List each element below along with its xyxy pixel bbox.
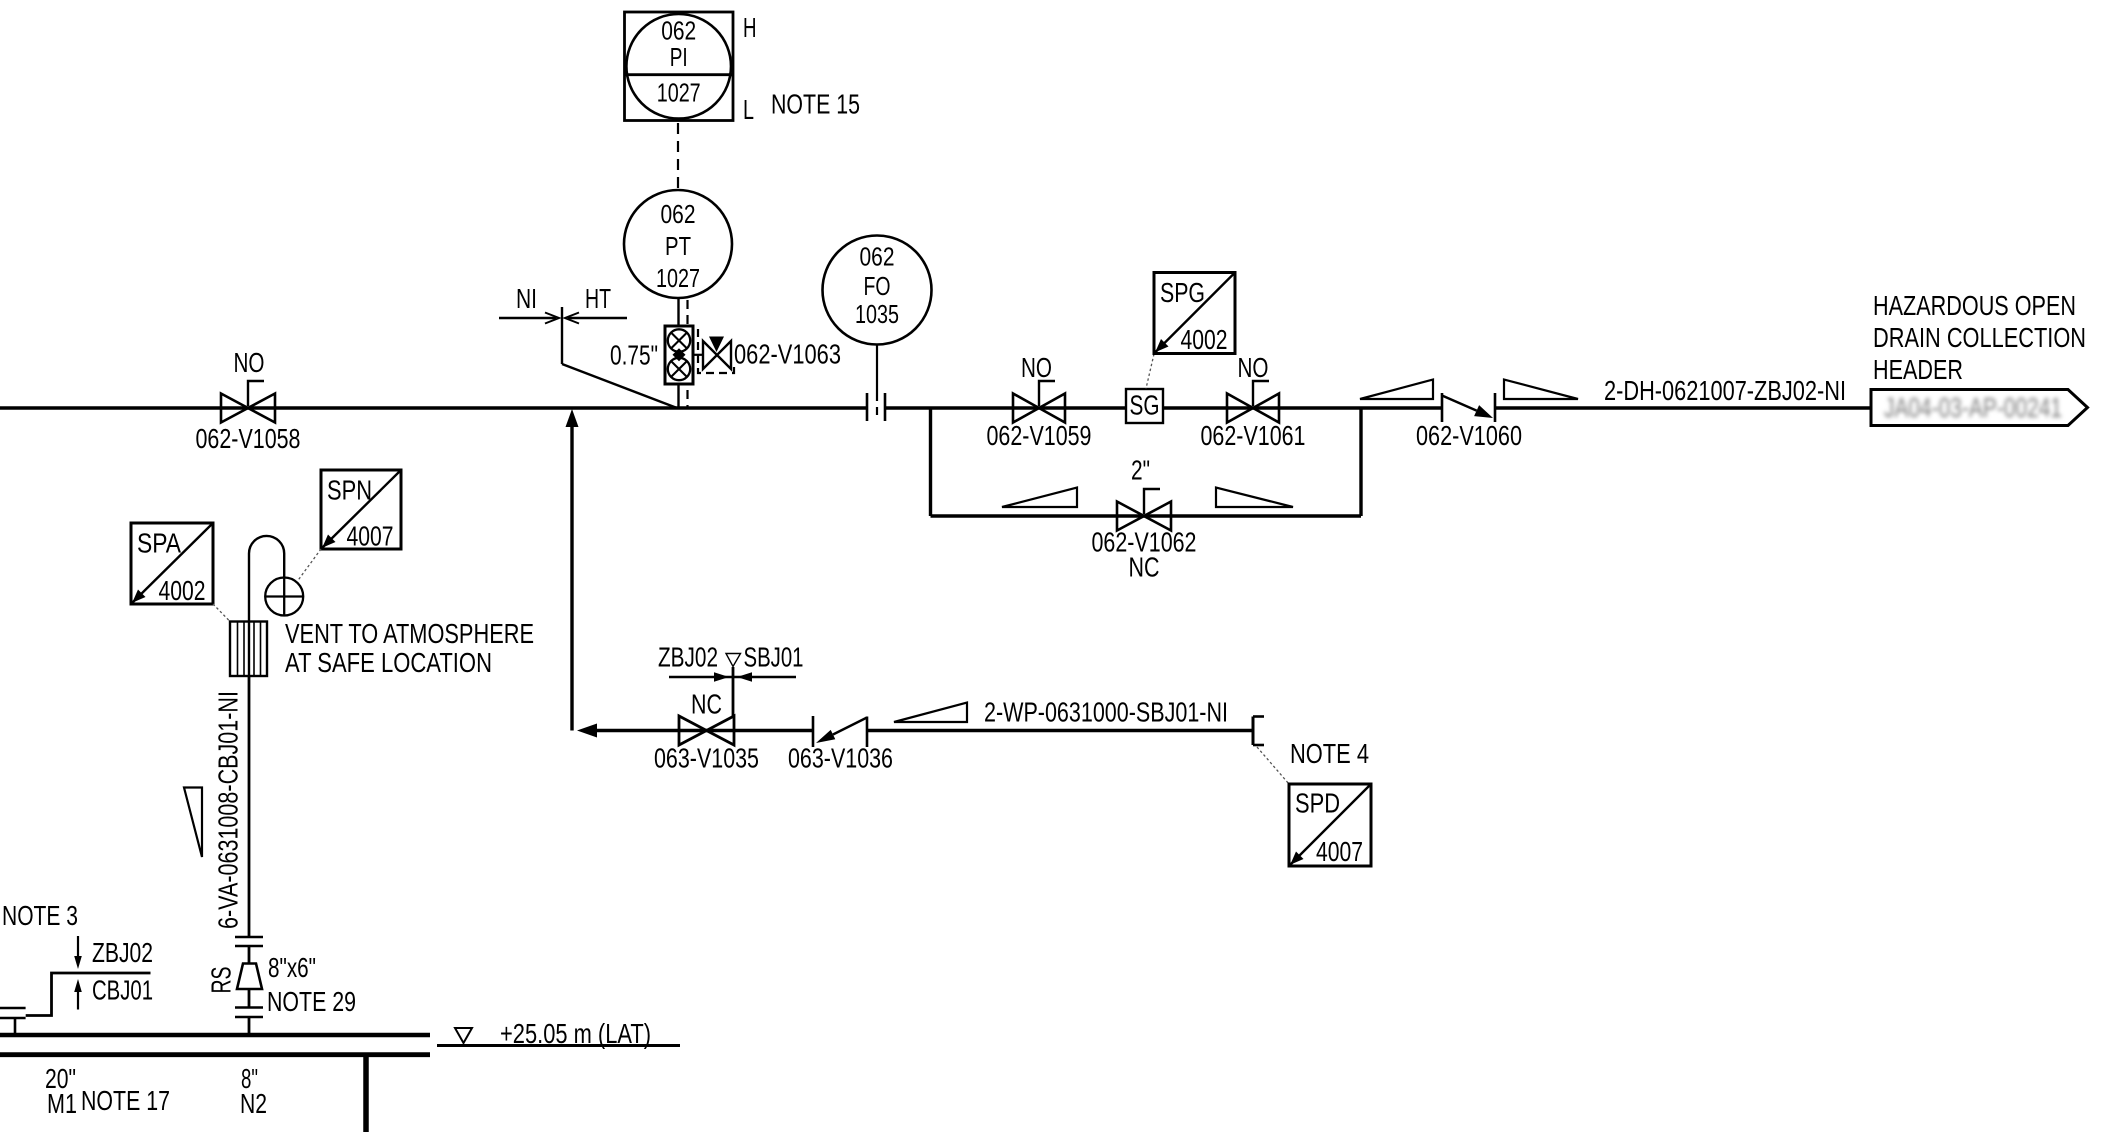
svg-text:NC: NC <box>1129 552 1160 583</box>
svg-text:1035: 1035 <box>855 301 899 329</box>
vent line 6-VA-0631008 <box>248 676 251 937</box>
slope symbol WP line <box>894 703 967 723</box>
tank internal vertical line <box>363 1056 369 1132</box>
svg-text:HT: HT <box>585 283 611 314</box>
gate valve 063-V1035 <box>679 716 734 745</box>
tank top line <box>0 1033 430 1038</box>
ZBJ02 arrow down <box>74 936 82 969</box>
slope symbol bypass left <box>1002 488 1077 508</box>
svg-text:063-V1036: 063-V1036 <box>788 743 893 774</box>
main process line 2-DH-0621007 <box>0 406 1871 410</box>
bird screen vent head <box>265 578 303 616</box>
svg-text:JA04-03-AP-00241: JA04-03-AP-00241 <box>1884 392 2062 423</box>
SPG 4002 special item box <box>1154 273 1235 356</box>
instrument PI 1027 shared display <box>625 12 734 121</box>
svg-text:RS: RS <box>206 967 237 994</box>
svg-text:SPN: SPN <box>327 475 372 506</box>
WP line to branch <box>589 729 1253 732</box>
svg-text:+25.05 m (LAT): +25.05 m (LAT) <box>500 1018 651 1049</box>
instrument PT 1027 <box>624 190 732 298</box>
svg-text:L: L <box>743 94 754 125</box>
svg-text:NOTE 29: NOTE 29 <box>267 986 356 1017</box>
svg-text:VENT TO ATMOSPHERE: VENT TO ATMOSPHERE <box>285 618 534 649</box>
SPA 4002 special item box <box>131 523 213 606</box>
svg-text:NO: NO <box>1238 352 1269 383</box>
double block valve manifold 0.75" <box>665 326 703 384</box>
svg-text:062-V1058: 062-V1058 <box>196 423 301 454</box>
leader SPN to vent head <box>298 549 322 581</box>
svg-text:N2: N2 <box>240 1088 267 1119</box>
svg-text:NOTE 15: NOTE 15 <box>771 89 860 120</box>
svg-text:HAZARDOUS OPEN: HAZARDOUS OPEN <box>1873 290 2076 321</box>
svg-text:8"x6": 8"x6" <box>268 952 316 983</box>
svg-text:4002: 4002 <box>159 575 206 606</box>
leader to SPD box <box>1257 747 1289 784</box>
check valve 063-V1036 <box>813 716 867 747</box>
svg-text:SG: SG <box>1130 390 1160 421</box>
HAZARDOUS OPEN DRAIN COLLECTION HEADER title <box>1873 290 2086 385</box>
PT impulse solid line <box>677 298 679 407</box>
check valve 062-V1060 <box>1442 393 1495 422</box>
svg-text:062-V1059: 062-V1059 <box>987 420 1092 451</box>
svg-text:NOTE 3: NOTE 3 <box>2 900 78 931</box>
svg-text:PI: PI <box>670 44 688 72</box>
reducer RS 8"x6" <box>237 964 262 990</box>
svg-text:H: H <box>743 12 757 43</box>
instrument FO 1035 <box>823 236 932 422</box>
svg-text:NOTE 4: NOTE 4 <box>1290 738 1369 769</box>
slope symbol bypass right <box>1216 488 1293 508</box>
svg-text:4007: 4007 <box>347 521 394 552</box>
svg-text:062-V1060: 062-V1060 <box>1416 420 1522 451</box>
svg-text:NC: NC <box>691 689 722 720</box>
spec break ZBJ02/SBJL01 marker <box>669 654 796 717</box>
line continuation bracket <box>1253 717 1264 746</box>
spec break step line ZBJ02/CBJ01 <box>26 973 151 1016</box>
svg-text:PT: PT <box>665 233 691 261</box>
svg-text:HEADER: HEADER <box>1873 354 1963 385</box>
SG sight glass <box>1126 389 1163 423</box>
vent gooseneck <box>249 536 284 622</box>
restriction orifice flanges <box>867 393 885 421</box>
svg-text:DRAIN COLLECTION: DRAIN COLLECTION <box>1873 322 2086 353</box>
off-page connector to drain header <box>1871 390 2088 426</box>
branch arrow up from WP line <box>566 409 579 731</box>
leader SPA to flame arrestor <box>213 604 230 622</box>
svg-text:2-WP-0631000-SBJ01-NI: 2-WP-0631000-SBJ01-NI <box>984 697 1228 728</box>
NI/HT insulation spec break <box>499 307 677 408</box>
svg-text:SPA: SPA <box>137 528 181 559</box>
nozzle M1 blind flange <box>0 1008 26 1034</box>
svg-text:0.75": 0.75" <box>610 340 658 371</box>
leader SPG to SG <box>1146 354 1154 389</box>
instrument signal line PI-PT (dashed) <box>677 123 679 190</box>
svg-text:062-V1061: 062-V1061 <box>1201 420 1306 451</box>
SPN 4007 special item box <box>321 470 401 552</box>
svg-text:SPG: SPG <box>1160 277 1205 308</box>
svg-text:1027: 1027 <box>656 265 700 293</box>
svg-text:1027: 1027 <box>657 80 701 108</box>
svg-text:4007: 4007 <box>1316 836 1363 867</box>
upper flange pair on vent line <box>235 937 263 964</box>
gate valve 062-V1061 <box>1227 381 1279 423</box>
svg-text:062: 062 <box>860 244 895 272</box>
slope symbol main left <box>1360 380 1433 400</box>
dashed manifold boundary of 062-V1063 <box>698 329 734 373</box>
svg-text:SBJ01: SBJ01 <box>744 642 804 673</box>
SPD 4007 special item box <box>1289 784 1371 867</box>
svg-text:2-DH-0621007-ZBJ02-NI: 2-DH-0621007-ZBJ02-NI <box>1604 375 1846 406</box>
globe valve 062-V1062 <box>1117 489 1171 531</box>
svg-text:NO: NO <box>234 347 265 378</box>
svg-text:NO: NO <box>1021 352 1052 383</box>
svg-text:NOTE 17: NOTE 17 <box>81 1085 170 1116</box>
lower flange pair on vent line <box>235 989 263 1034</box>
flow arrow into branch <box>577 724 597 738</box>
PT impulse dashed line <box>686 300 688 407</box>
gate valve 062-V1058 <box>221 381 275 423</box>
svg-text:063-V1035: 063-V1035 <box>654 743 759 774</box>
slope symbol main right <box>1504 380 1578 400</box>
svg-text:ZBJ02: ZBJ02 <box>92 937 153 968</box>
svg-text:062: 062 <box>661 201 696 229</box>
svg-text:SPD: SPD <box>1295 788 1340 819</box>
gate valve 062-V1059 <box>1013 381 1065 423</box>
svg-text:062: 062 <box>661 18 696 46</box>
flame arrestor hatched box <box>230 622 267 677</box>
svg-text:2": 2" <box>1131 455 1150 486</box>
slope symbol vent line <box>184 788 202 858</box>
svg-text:AT SAFE LOCATION: AT SAFE LOCATION <box>285 647 492 678</box>
svg-text:6-VA-0631008-CBJ01-NI: 6-VA-0631008-CBJ01-NI <box>213 691 244 929</box>
svg-text:ZBJ02: ZBJ02 <box>658 642 718 673</box>
tank shell second line <box>0 1052 430 1057</box>
svg-text:4002: 4002 <box>1181 324 1228 355</box>
svg-text:NI: NI <box>516 283 537 314</box>
vent valve 062-V1063 <box>703 337 731 370</box>
svg-text:M1: M1 <box>47 1088 77 1119</box>
bypass loop line <box>931 408 1362 516</box>
CBJ01 arrow up <box>74 979 82 1010</box>
svg-text:CBJ01: CBJ01 <box>92 975 153 1006</box>
svg-text:FO: FO <box>864 273 891 301</box>
level marker +25.05 m (LAT) <box>437 1028 680 1046</box>
VENT TO ATMOSPHERE AT SAFE LOCATION text <box>285 618 534 678</box>
svg-text:062-V1063: 062-V1063 <box>734 339 841 370</box>
